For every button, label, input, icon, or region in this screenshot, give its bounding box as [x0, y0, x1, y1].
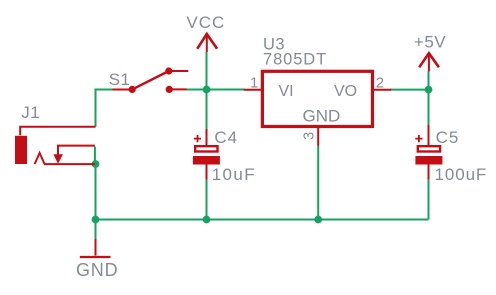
- junction J1 sleeve node: [92, 160, 100, 168]
- junction C4 bottom on rail: [203, 216, 211, 224]
- svg-text:GND: GND: [303, 107, 341, 126]
- junction bottom rail left: [92, 216, 100, 224]
- regulator U3 pin 1 stub: [244, 89, 262, 91]
- ground symbol bar: [80, 256, 111, 258]
- wire GND net: C4 bottom to rail: [206, 180, 208, 220]
- regulator U3 body: [262, 71, 372, 126]
- svg-text:S1: S1: [109, 70, 131, 89]
- svg-text:C4: C4: [214, 128, 238, 147]
- capacitor C5 plus sign: [415, 135, 422, 142]
- power symbol VCC arrow: [197, 34, 217, 49]
- svg-text:10uF: 10uF: [212, 165, 256, 184]
- ground symbol stub: [95, 239, 97, 256]
- wire VCC net: switch to U3 pin 1: [186, 89, 245, 91]
- svg-text:100uF: 100uF: [435, 165, 488, 184]
- power symbol +5V arrow: [419, 53, 439, 67]
- capacitor C4 top stub: [206, 129, 208, 146]
- capacitor C5 top plate: [418, 146, 440, 151]
- connector J1 barrel: [15, 136, 27, 164]
- switch S1 lower pin stub: [169, 88, 186, 90]
- junction U3 GND pin on rail: [314, 216, 322, 224]
- wire GND net: C5 bottom to rail: [428, 180, 430, 220]
- wire +5V net: +5V symbol down to C5 top: [428, 71, 430, 125]
- svg-text:GND: GND: [76, 260, 118, 280]
- wire GND net: U3 pin 3 to rail: [317, 146, 319, 220]
- wire VCC net: VCC symbol down to C4 top: [206, 52, 208, 129]
- capacitor C4 bottom stub: [206, 165, 208, 180]
- svg-text:VI: VI: [279, 83, 294, 100]
- svg-text:1: 1: [250, 74, 258, 91]
- capacitor C4 top plate: [195, 146, 217, 151]
- capacitor C4 plus sign: [194, 135, 201, 142]
- connector J1 sleeve line: [44, 163, 95, 165]
- switch S1 upper pin stub: [169, 70, 189, 72]
- svg-text:+5V: +5V: [414, 32, 446, 51]
- wire GND net: left vertical to bottom rail: [95, 164, 97, 220]
- wire +5V net: U3 pin 2 to +5V node: [391, 89, 429, 91]
- wire GND net: bottom rail: [96, 219, 429, 221]
- switch S1 lower contact dot: [166, 86, 173, 93]
- svg-text:2: 2: [376, 74, 384, 91]
- switch S1 lever: [132, 71, 169, 89]
- capacitor C4 bottom plate: [193, 156, 220, 165]
- switch S1 upper contact dot: [165, 67, 172, 74]
- regulator U3 pin 3 stub: [317, 127, 319, 146]
- junction VCC node: [203, 86, 211, 94]
- svg-text:3: 3: [302, 132, 318, 140]
- capacitor C5 bottom plate: [415, 156, 442, 165]
- regulator U3 pin 2 stub: [373, 89, 392, 91]
- junction +5V node: [425, 86, 433, 94]
- wire GND net: J1 switched contact down to sleeve junction: [94, 147, 96, 164]
- wire GND net: stub from rail down to ground symbol: [95, 220, 97, 240]
- power symbol VCC stem: [206, 35, 208, 53]
- switch S1 left pin stub: [113, 89, 133, 91]
- capacitor C5 bottom stub: [428, 164, 430, 179]
- svg-text:VCC: VCC: [186, 13, 225, 32]
- connector J1 switched contact wire: [58, 146, 95, 155]
- svg-text:VO: VO: [334, 83, 357, 100]
- connector J1 arrow head: [53, 154, 63, 164]
- wire VCC net: switch left pin to J1 tip: [96, 90, 114, 127]
- capacitor C5 top stub: [428, 125, 430, 145]
- connector J1 tip pin wire: [20, 127, 95, 136]
- connector J1 spring contact chevron: [35, 153, 45, 164]
- svg-text:7805DT: 7805DT: [263, 51, 327, 69]
- svg-text:C5: C5: [436, 128, 460, 147]
- switch S1 left contact dot: [129, 86, 136, 93]
- svg-text:J1: J1: [21, 103, 40, 122]
- power symbol +5V stem: [428, 54, 430, 72]
